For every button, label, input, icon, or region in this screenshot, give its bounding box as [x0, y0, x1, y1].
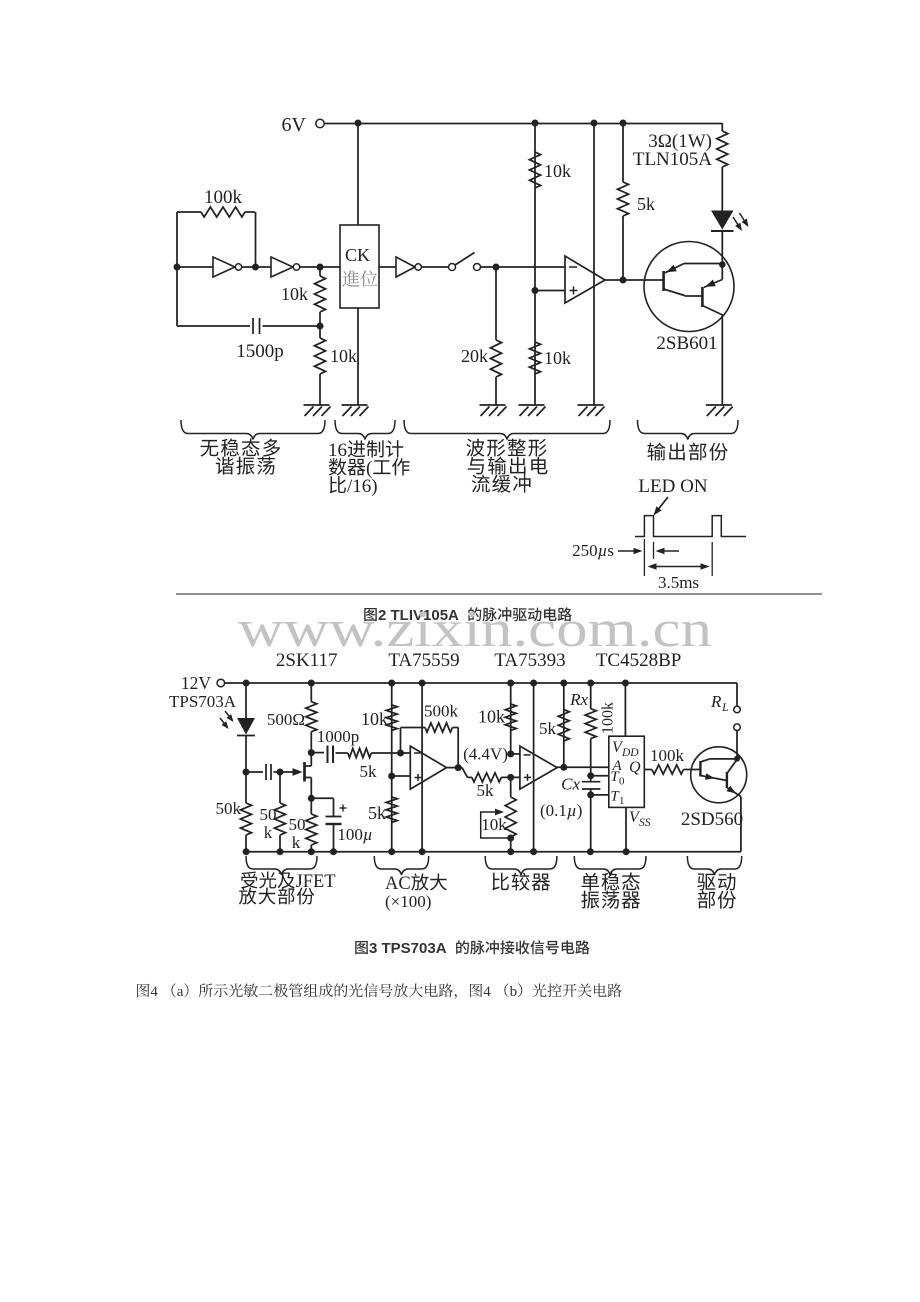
transistor Q3 2SD560 circle [691, 747, 747, 803]
svg-text:100k: 100k [650, 746, 685, 765]
horizontal rule [176, 593, 822, 595]
junction dot plus input [532, 287, 539, 294]
svg-text:2SD560: 2SD560 [681, 809, 743, 830]
junction dot bottom rail x=311.3 [308, 848, 315, 855]
label drive section [697, 873, 736, 909]
label TPS703A [169, 692, 237, 711]
svg-text:1: 1 [619, 795, 625, 807]
dim arrow 3.5ms [648, 563, 710, 569]
label 2SD560 [681, 809, 743, 830]
label 0.1u [540, 801, 582, 820]
switch S1 [449, 253, 481, 271]
resistor R-10k lower [315, 326, 326, 405]
junction dot photodiode node [243, 769, 250, 776]
svg-text:LED ON: LED ON [638, 476, 707, 497]
capacitor C-1000p [311, 746, 348, 764]
wire T0 [591, 775, 609, 777]
svg-text:Rx: Rx [569, 690, 588, 709]
wire 10k divider branch [534, 123, 536, 405]
resistor R-100k feedback [177, 207, 255, 217]
brace waveshaper section [404, 420, 610, 440]
ground G3 [480, 405, 507, 416]
label RL [710, 692, 729, 714]
label LED ON [638, 476, 707, 497]
label 5k pullup [539, 719, 557, 738]
wire Q output [644, 769, 652, 771]
wire T1 [591, 794, 609, 796]
label ac amp [385, 873, 447, 911]
inverter U1 [213, 257, 242, 277]
wire feedback right vertical [255, 212, 257, 267]
op-amp U6 TA75393 [520, 746, 557, 789]
label 20k [461, 346, 488, 366]
op-amp U5 TA75559 [410, 746, 446, 789]
svg-text:5k: 5k [360, 762, 378, 781]
svg-text:TA75559: TA75559 [388, 650, 459, 671]
junction dot top rail at bypass [591, 120, 598, 127]
svg-text:0: 0 [619, 776, 625, 788]
waveform ticks [644, 539, 712, 576]
junction dot bottom rail x=510.7 [507, 848, 514, 855]
junction dot top rail at 5k [620, 120, 627, 127]
JFET Q2 2SK117 [293, 762, 312, 782]
wire to opamp2 plus [501, 776, 520, 778]
wire top rail circuit2 [224, 682, 737, 684]
wire VDD [624, 683, 626, 736]
ground G1 [304, 405, 331, 416]
svg-text:10k: 10k [361, 709, 388, 729]
svg-text:(4.4V): (4.4V) [463, 745, 508, 764]
label 10k upper [281, 284, 308, 304]
svg-text:TLN105A: TLN105A [633, 149, 712, 170]
resistor Rx 100k [585, 683, 596, 776]
junction dot bottom rail x=280 [277, 848, 284, 855]
label VSS [629, 809, 651, 829]
junction dot collector Q3 [734, 756, 740, 762]
wire VSS [625, 807, 627, 851]
junction dot rail2 x=311.3 [308, 680, 315, 687]
junction dot bottom rail x=626.1 [623, 848, 630, 855]
ground G2 [342, 405, 369, 416]
wire 10k comp branch [510, 683, 512, 754]
wire 10k-5k branch [391, 683, 393, 852]
inverter U2 [271, 257, 300, 277]
brace monostable section [574, 856, 646, 875]
arrow LED ON pointer [654, 497, 669, 516]
waveform pulses [635, 516, 746, 537]
label 500k [424, 702, 459, 721]
junction dot after U1 [252, 264, 259, 271]
junction dot rail2 x=590.7 [587, 680, 594, 687]
label 3.5ms [658, 573, 699, 592]
resistor R-20k [491, 267, 502, 405]
label 5k ac [368, 803, 386, 823]
svg-text:4: 4 [483, 984, 491, 1000]
brace ac amp section [374, 856, 428, 875]
wire feedback left vertical [176, 212, 178, 326]
LED D1 TLN105A [711, 211, 734, 265]
junction dot T1 node [587, 791, 594, 798]
resistor R-5k [618, 123, 629, 280]
paragraph figure 4 text [137, 983, 621, 1000]
wire bottom rail circuit2 [246, 851, 741, 853]
junction dot top rail at CK [355, 120, 362, 127]
svg-text:5k: 5k [368, 803, 386, 823]
Q3 darlington internals [700, 759, 741, 797]
label 5k interstage [477, 781, 495, 800]
label 10k bottom right [544, 348, 571, 368]
brace photodiode section [246, 856, 317, 875]
op-amp U4 [565, 256, 605, 303]
junction dot comp minus [507, 750, 514, 757]
caption figure 3 [355, 940, 589, 957]
svg-text:R: R [710, 692, 722, 711]
svg-text:AC: AC [385, 874, 411, 894]
label A pin [612, 758, 623, 774]
wire node A to inverter [177, 266, 213, 268]
label 10k pot [481, 815, 507, 834]
label TLN105A [633, 149, 712, 170]
wire U6 output to A [557, 766, 609, 768]
svg-text:500k: 500k [424, 702, 459, 721]
resistor R-50k left [241, 772, 252, 852]
resistor R-50k mid [275, 772, 286, 852]
junction dot source node [308, 795, 315, 802]
label 4.4V [463, 745, 508, 764]
wire RL to collector [736, 730, 738, 759]
svg-text:2SK117: 2SK117 [276, 650, 338, 671]
label 100k vertical [600, 702, 617, 734]
brace astable section [181, 420, 325, 440]
junction dot bottom rail x=533.6 [530, 848, 537, 855]
svg-text:10k: 10k [281, 284, 308, 304]
wire U1 to U2 [242, 266, 271, 268]
svg-text:50k: 50k [216, 799, 242, 818]
wire source to cap [311, 798, 333, 816]
label 3ohm 1W [648, 131, 712, 152]
label TC4528BP [596, 650, 682, 671]
resistor R-5k series [348, 748, 372, 757]
junction dot T0 node [587, 772, 594, 779]
junction dot top rail at 10k [532, 120, 539, 127]
label 1500p [236, 341, 284, 362]
label 50k mid [260, 805, 277, 842]
label 進位 [342, 270, 377, 287]
resistor R-10k ac [386, 705, 397, 730]
junction dot rail2 x=625.4 [622, 680, 629, 687]
label 100u [337, 825, 372, 844]
label comparator [492, 873, 550, 891]
label 10k ac [361, 709, 388, 729]
junction dot rail2 x=533.6 [530, 680, 537, 687]
transistor Q1 2SB601 circle [644, 242, 734, 332]
svg-text:10k: 10k [481, 815, 507, 834]
junction dot rail2 x=391.7 [388, 680, 395, 687]
label TA75393 [494, 650, 565, 671]
wire emitter down [740, 797, 742, 852]
wire 5k pullup branch [563, 683, 565, 767]
resistor R-5k interstage [472, 773, 501, 782]
label 100k [204, 187, 243, 208]
resistor R-10k comp [505, 704, 516, 730]
svg-text:10k: 10k [544, 348, 571, 368]
wire comp minus [511, 753, 520, 755]
svg-text:100µ: 100µ [337, 825, 372, 844]
svg-text:10k: 10k [478, 707, 505, 727]
svg-text:6V: 6V [282, 114, 307, 136]
svg-text:3.5ms: 3.5ms [658, 573, 699, 592]
wire crossing line op1 [421, 683, 423, 852]
junction dot node D [493, 264, 500, 271]
wire rail corner to 3ohm [721, 123, 723, 131]
resistor R-500ohm [306, 683, 317, 753]
svg-text:(×100): (×100) [385, 892, 431, 911]
node 12V supply terminal [181, 673, 225, 693]
label 10k lower [330, 346, 357, 366]
wire rail corner to RL [736, 683, 738, 706]
LED emission arrows [733, 213, 749, 231]
label monostable [581, 873, 640, 909]
junction dot node C [317, 323, 324, 330]
junction dot collector node [719, 261, 726, 268]
label 500ohm [267, 710, 305, 729]
junction dot rail2 x=422.1 [419, 680, 426, 687]
svg-text:TA75393: TA75393 [494, 650, 565, 671]
svg-text:1500p: 1500p [236, 341, 284, 362]
label 250us [572, 541, 614, 560]
potentiometer R-10k pot [481, 774, 517, 852]
junction dot minus node [397, 750, 404, 757]
feedback loop 500k [401, 723, 459, 768]
svg-text:5k: 5k [539, 719, 557, 738]
wire top rail circuit1 [324, 123, 722, 125]
svg-text:12V: 12V [181, 673, 212, 693]
svg-text:2SB601: 2SB601 [656, 333, 717, 354]
svg-text:(0.1µ): (0.1µ) [540, 801, 582, 820]
dim arrow 250us left [618, 548, 643, 554]
wire U3 to switch [421, 266, 448, 268]
wire emitter to ground [721, 315, 723, 406]
label waveform shaping [466, 439, 547, 493]
junction dot bottom rail x=333.5 [330, 848, 337, 855]
block U7 TC4528BP [609, 736, 645, 807]
ground G5 [578, 405, 605, 416]
label T0 pin [610, 769, 625, 788]
label hexadecimal divider [328, 440, 410, 497]
label 10k top right [544, 161, 571, 181]
svg-text:50: 50 [289, 815, 306, 834]
svg-text:CK: CK [345, 245, 370, 265]
junction dot node B [317, 264, 324, 271]
node 6V supply terminal [282, 114, 325, 136]
label 50k left [216, 799, 242, 818]
photodiode light arrows [220, 711, 234, 729]
junction dot bottom rail x=246.1 [243, 848, 250, 855]
wire U4 output [605, 279, 664, 281]
Q1 darlington internals [664, 264, 723, 316]
label 1000p [317, 727, 360, 746]
wire switch to opamp [481, 266, 566, 268]
svg-text:b: b [510, 984, 517, 1000]
label photo jfet section [239, 871, 336, 904]
junction dot output node [620, 277, 627, 284]
junction dot rail2 x=563.8 [560, 680, 567, 687]
svg-text:100k: 100k [204, 187, 243, 208]
label 5k [637, 194, 655, 214]
svg-text:k: k [264, 823, 273, 842]
capacitor C-1500p [177, 318, 320, 334]
junction dot rail2 x=510.7 [507, 680, 514, 687]
junction dot gate node [277, 769, 284, 776]
watermark zixin [238, 601, 712, 658]
wire gate [280, 771, 294, 773]
svg-text:a: a [177, 984, 184, 1000]
svg-text:L: L [721, 700, 729, 714]
svg-text:DD: DD [621, 747, 639, 759]
svg-text:5k: 5k [637, 194, 655, 214]
capacitor Cx [582, 776, 601, 795]
node A input dot [174, 264, 181, 271]
svg-text:Q: Q [629, 759, 641, 776]
svg-text:k: k [292, 833, 301, 852]
junction dot bottom rail x=391.7 [388, 848, 395, 855]
svg-text:Cx: Cx [561, 775, 580, 794]
brace comparator section [485, 856, 557, 875]
svg-text:100k: 100k [600, 702, 617, 734]
wire bypass line [593, 123, 595, 405]
svg-text:500Ω: 500Ω [267, 710, 305, 729]
block CK divide-by-16 [340, 225, 379, 308]
wire to opamp1 minus [371, 752, 410, 754]
label T1 pin [610, 789, 624, 808]
label 2SK117 [276, 650, 338, 671]
junction dot plus node ac [388, 773, 395, 780]
caption figure 2 [364, 607, 572, 624]
dim arrow 250us right [656, 548, 680, 554]
wire drain [310, 753, 312, 766]
resistor R-10k top right [530, 152, 541, 188]
label Q pin [629, 759, 641, 776]
resistor R-10k upper divider [315, 267, 326, 326]
brace output section [638, 420, 739, 440]
label CK [345, 245, 370, 265]
svg-text:TC4528BP: TC4528BP [596, 650, 682, 671]
resistor R-5k pullup [558, 710, 569, 741]
junction dot rail2 x=246.1 [243, 680, 250, 687]
resistor R-3ohm [717, 131, 728, 211]
label 5k series [360, 762, 378, 781]
label wen-stable multivibrator [200, 439, 280, 475]
label VDD [612, 739, 639, 759]
label Rx [569, 690, 588, 709]
wire Cx to bottom rail [590, 795, 592, 852]
load terminal RL bottom [734, 724, 741, 731]
wire base [684, 769, 701, 771]
wire U5 output [447, 767, 463, 769]
svg-text:TPS703A: TPS703A [169, 692, 237, 711]
svg-text:/16): /16) [347, 476, 378, 497]
brace drive section [687, 856, 741, 875]
wire U2 to CK block [300, 266, 340, 268]
svg-text:10k: 10k [544, 161, 571, 181]
junction dot bottom rail x=422.1 [419, 848, 426, 855]
ground G4 [519, 405, 546, 416]
label 100k base [650, 746, 685, 765]
wire plus input ac [392, 775, 411, 777]
svg-text:4: 4 [150, 984, 158, 1000]
load terminal RL top [734, 706, 741, 713]
wire CK out [379, 266, 396, 268]
resistor R-100k base [652, 765, 684, 774]
inverter U3 [396, 257, 421, 277]
wire CK block to ground [357, 308, 359, 405]
label output section [647, 443, 727, 461]
label Cx [561, 775, 580, 794]
junction dot U5 output [455, 764, 462, 771]
svg-text:SS: SS [639, 817, 651, 829]
svg-text:20k: 20k [461, 346, 488, 366]
svg-text:16: 16 [328, 440, 347, 461]
brace divider section [335, 420, 395, 440]
wire photodiode to node [245, 736, 247, 773]
capacitor C-100u electrolytic [326, 805, 347, 852]
resistor R-5k ac [386, 797, 397, 822]
label 2SB601 [656, 333, 717, 354]
label 50k source [289, 815, 306, 852]
resistor R-50k source [306, 798, 317, 851]
wire plus input [535, 290, 565, 292]
svg-text:3 TPS703A: 3 TPS703A [369, 940, 447, 957]
svg-text:250µs: 250µs [572, 541, 614, 560]
svg-text:1000p: 1000p [317, 727, 360, 746]
label TA75559 [388, 650, 459, 671]
svg-text:50: 50 [260, 805, 277, 824]
junction dot 5k pullup [560, 764, 567, 771]
junction dot drain node [308, 749, 315, 756]
wire output step down [462, 768, 472, 778]
svg-text:5k: 5k [477, 781, 495, 800]
wire crossing line op2 [533, 683, 535, 852]
capacitor C-coupling [246, 764, 277, 780]
wire rail to photodiode [245, 683, 247, 718]
resistor R-10k bottom right [530, 342, 541, 374]
svg-text:10k: 10k [330, 346, 357, 366]
label 10k comp [478, 707, 505, 727]
photodiode D2 TPS703A [237, 718, 255, 736]
wire source [310, 778, 312, 799]
wire rail to CK block [357, 123, 359, 225]
ground G6 [706, 405, 733, 416]
junction dot bottom rail x=590.4 [587, 848, 594, 855]
